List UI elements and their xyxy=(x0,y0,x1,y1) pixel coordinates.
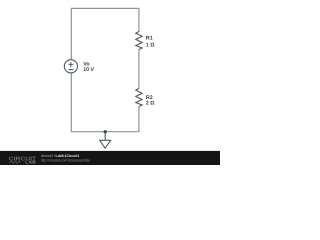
ground symbol triangle xyxy=(100,140,111,148)
voltage source plus sign xyxy=(69,62,74,67)
svg-text:LAB: LAB xyxy=(25,160,36,165)
resistor R2 zigzag xyxy=(136,89,142,107)
svg-text:http://circuitlab.com/c/pwanar: http://circuitlab.com/c/pwanarp/lab8e xyxy=(41,159,90,163)
wire: right vertical between R1 and R2 xyxy=(138,50,140,89)
label R1 xyxy=(146,36,153,42)
credit line 2 url xyxy=(41,159,90,163)
svg-text:1 Ω: 1 Ω xyxy=(146,43,155,49)
CircuitLab logo text LAB xyxy=(25,160,36,165)
resistor R1 zigzag xyxy=(136,32,142,50)
label R2 xyxy=(146,95,153,101)
voltage source minus sign xyxy=(69,69,74,71)
junction node dot xyxy=(104,130,107,133)
svg-text:2 Ω: 2 Ω xyxy=(146,101,155,107)
label 1 ohm xyxy=(146,43,155,49)
CircuitLab logo zigzag xyxy=(9,161,21,164)
svg-text:R1: R1 xyxy=(146,36,153,42)
bottom black bar xyxy=(0,151,220,165)
label 10 V xyxy=(83,67,94,73)
svg-text:10 V: 10 V xyxy=(83,67,94,73)
credit line 1 title xyxy=(56,154,80,158)
CircuitLab logo text CIRCUIT xyxy=(9,157,37,163)
label 2 ohm xyxy=(146,101,155,107)
credit line 1 xyxy=(41,154,55,158)
ground stub wire xyxy=(104,132,106,140)
voltage source V1 circle xyxy=(64,60,77,73)
wire: source top, up and across top to R1 top xyxy=(71,8,139,59)
label Vo xyxy=(83,62,90,68)
wire: R2 bottom, down and across bottom to source bottom xyxy=(71,73,139,132)
